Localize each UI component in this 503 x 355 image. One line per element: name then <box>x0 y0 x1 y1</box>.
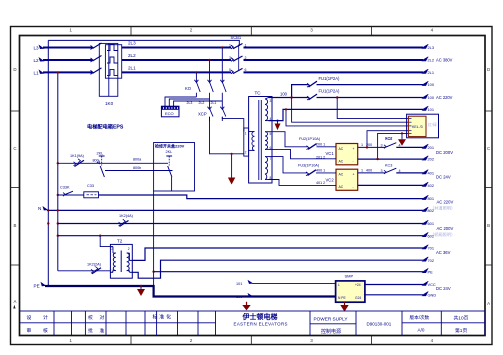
svg-text:401 2: 401 2 <box>316 181 325 185</box>
svg-text:A/0: A/0 <box>418 328 425 333</box>
box inspection switch <box>154 143 195 192</box>
wire 2L2 to terminal <box>244 59 424 61</box>
svg-text:检修开关盒220V: 检修开关盒220V <box>155 143 185 149</box>
breaker SCB1 <box>231 44 243 74</box>
junction C33K row bus <box>57 194 59 196</box>
wire 2L1 to terminal <box>244 71 424 73</box>
relay KEL <box>407 114 439 138</box>
svg-text:2KL: 2KL <box>166 150 173 154</box>
rectifier VC1 <box>336 144 358 165</box>
svg-text:标准化: 标准化 <box>153 314 173 321</box>
svg-text:DC 24V: DC 24V <box>436 175 451 180</box>
svg-text:201 2: 201 2 <box>316 155 325 159</box>
svg-text:D: D <box>487 67 490 72</box>
svg-text:701: 701 <box>428 246 435 251</box>
junction 601 bus1 <box>47 222 49 224</box>
terminal GND <box>422 292 437 298</box>
terminal 601 <box>422 220 435 226</box>
wire 801 line <box>99 195 424 199</box>
svg-text:C33K: C33K <box>60 186 70 190</box>
junction 2L1 tap <box>195 71 197 73</box>
svg-text:AC 380V: AC 380V <box>436 57 453 62</box>
terminal 701 <box>422 245 435 251</box>
svg-text:4: 4 <box>431 28 434 33</box>
wire N 802 line <box>47 209 423 211</box>
svg-text:ECO: ECO <box>165 111 174 116</box>
svg-text:2L3: 2L3 <box>128 41 136 46</box>
inner border frame <box>20 36 486 336</box>
wire switch output down <box>171 177 173 191</box>
wire KEL feeder 1 <box>337 98 408 119</box>
svg-text:L2: L2 <box>34 58 40 63</box>
ground TC primary <box>228 153 235 185</box>
svg-text:2: 2 <box>245 151 247 155</box>
svg-text:2L1: 2L1 <box>211 101 217 105</box>
wire 702 line <box>132 260 423 278</box>
svg-text:1: 1 <box>69 28 72 33</box>
svg-text:L3: L3 <box>34 45 40 50</box>
terminal 202 <box>422 156 435 162</box>
switch 2KL outside <box>97 156 105 177</box>
svg-text:1: 1 <box>229 43 231 47</box>
terminal L2 <box>34 57 45 63</box>
svg-text:第1页: 第1页 <box>455 327 467 334</box>
svg-text:准: 准 <box>100 327 105 334</box>
wire 601 line <box>58 223 423 225</box>
svg-text:版本/次数: 版本/次数 <box>410 314 430 321</box>
svg-text:1K0: 1K0 <box>105 101 114 106</box>
junction T2 feed <box>99 235 101 237</box>
svg-text:N PE: N PE <box>338 296 346 300</box>
terminal 402 <box>422 182 435 188</box>
svg-text:XCP: XCP <box>198 112 207 117</box>
wire TC S2 to VC1 pin1 <box>269 132 309 147</box>
svg-text:EASTERN ELEVATORS: EASTERN ELEVATORS <box>234 321 288 326</box>
svg-text:C: C <box>487 146 490 151</box>
svg-text:AC: AC <box>339 160 344 164</box>
terminal 602 <box>422 233 435 239</box>
svg-text:1K1(9A): 1K1(9A) <box>70 154 85 158</box>
svg-text:1K2(4A): 1K2(4A) <box>119 214 134 218</box>
svg-text:共10页: 共10页 <box>454 314 469 321</box>
title block grid <box>20 311 486 336</box>
wire KC2 to terminal 201 <box>396 146 423 148</box>
svg-text:VC1: VC1 <box>326 151 335 156</box>
svg-text:800: 800 <box>93 159 99 163</box>
terminal 201 <box>422 144 435 150</box>
wire T2 primary feed <box>100 236 110 247</box>
svg-text:VC2: VC2 <box>326 177 335 182</box>
svg-text:5: 5 <box>270 132 272 136</box>
junction N bus2 <box>57 209 59 211</box>
junction 602 row bus <box>57 235 59 237</box>
wire PE bus thick <box>45 286 336 297</box>
svg-text:201: 201 <box>428 145 435 150</box>
terminal 2L3 <box>422 44 435 50</box>
wire VC2 minus to terminal 402 <box>358 184 423 186</box>
junction feeder2 <box>366 146 368 148</box>
svg-text:C33: C33 <box>87 184 94 188</box>
terminal 100 <box>422 81 435 87</box>
zone ticks and numbers top margin <box>131 27 372 36</box>
wire line 100 upper <box>292 85 309 98</box>
svg-text:FU2(1P10A): FU2(1P10A) <box>299 137 321 141</box>
terminal 702 <box>422 257 435 263</box>
terminal 2L1 <box>422 69 435 75</box>
svg-text:2: 2 <box>128 247 130 251</box>
svg-text:101: 101 <box>236 282 242 286</box>
svg-text:4: 4 <box>431 338 434 343</box>
fuse FU1 lower <box>307 94 317 100</box>
svg-text:控制电源: 控制电源 <box>321 328 341 335</box>
wire VC1 plus to KC2 <box>358 146 385 148</box>
svg-text:L: L <box>338 283 340 287</box>
wire XCP-b to TC pin1 <box>222 117 244 132</box>
svg-text:1: 1 <box>69 338 72 343</box>
svg-text:TC: TC <box>255 91 262 96</box>
svg-text:D: D <box>13 67 16 72</box>
svg-text:KC2: KC2 <box>385 137 392 141</box>
svg-text:2: 2 <box>190 338 193 343</box>
svg-text:+24: +24 <box>355 283 361 287</box>
svg-text:AC 200V: AC 200V <box>437 226 454 231</box>
svg-text:核: 核 <box>43 327 48 334</box>
svg-text:3: 3 <box>310 28 313 33</box>
terminal L1 <box>34 69 45 75</box>
svg-text:电梯配电箱EPS: 电梯配电箱EPS <box>87 123 124 131</box>
svg-text:T2: T2 <box>117 239 123 244</box>
terminal 2L2 <box>422 57 435 63</box>
svg-text:800a: 800a <box>133 157 142 161</box>
svg-text:设: 设 <box>27 314 32 321</box>
svg-text:2L3: 2L3 <box>187 101 193 105</box>
terminal block TC primary <box>244 128 249 156</box>
junction feeder3 <box>376 158 378 160</box>
svg-text:101: 101 <box>428 107 435 112</box>
terminal 801 <box>422 195 435 201</box>
svg-text:（轿厢照明）: （轿厢照明） <box>430 231 455 238</box>
terminal L3 <box>34 45 45 51</box>
svg-text:1: 1 <box>128 269 130 273</box>
transformer TC <box>249 97 272 184</box>
junction 601 row bus <box>57 222 59 224</box>
wire KEL feeder 3 <box>286 109 408 126</box>
bus vertical left N <box>47 40 49 286</box>
svg-text:400: 400 <box>366 168 372 172</box>
wire TC S3 to VC2 pin2 <box>269 180 337 186</box>
contact KC3 <box>384 168 396 174</box>
junction 1K1 row bus <box>57 162 59 164</box>
contact KC2 <box>384 143 396 149</box>
wire 701 line <box>132 248 423 260</box>
wire 800a inside box <box>154 162 168 164</box>
svg-text:+: + <box>353 172 355 176</box>
wire TC S3 to VC2 pin1 <box>269 157 308 173</box>
breaker 1K3 <box>91 267 101 274</box>
rectifier VC2 <box>336 169 358 190</box>
svg-text:3: 3 <box>270 99 272 103</box>
svg-text:DC 200V: DC 200V <box>436 150 453 155</box>
svg-text:2L2: 2L2 <box>199 101 205 105</box>
svg-text:200: 200 <box>366 143 372 147</box>
wire 800b inside box <box>154 170 173 172</box>
svg-text:2L1: 2L1 <box>128 66 136 71</box>
svg-text:FU3(1P10A): FU3(1P10A) <box>298 163 320 167</box>
junction L1 bus <box>57 71 59 73</box>
svg-text:对: 对 <box>100 314 105 321</box>
svg-text:批: 批 <box>88 327 93 334</box>
terminal PE <box>422 269 434 275</box>
terminal 802 <box>422 207 435 213</box>
wire L2 phase <box>43 59 93 61</box>
svg-text:+: + <box>353 147 355 151</box>
svg-text:100: 100 <box>428 82 435 87</box>
svg-text:AC 36V: AC 36V <box>436 250 451 255</box>
wire TC S2 to VC1 pin2 <box>269 149 337 158</box>
svg-text:3: 3 <box>310 338 313 343</box>
svg-text:KEL /3: KEL /3 <box>412 125 423 129</box>
terminal PE <box>34 282 47 289</box>
svg-text:A: A <box>14 299 17 304</box>
svg-text:100: 100 <box>236 295 242 299</box>
fuse FU1 upper <box>307 81 317 87</box>
svg-text:审: 审 <box>27 327 32 334</box>
svg-text:G24: G24 <box>355 296 361 300</box>
pin numbers SCB1 <box>229 43 247 72</box>
wire C33K row <box>58 194 84 196</box>
svg-text:FU1(1P2A): FU1(1P2A) <box>319 76 341 81</box>
wire GND line <box>365 294 423 296</box>
svg-text:PE: PE <box>428 269 434 274</box>
wire 1K1 row <box>58 162 154 164</box>
wire line 100 lower from TC <box>269 97 309 99</box>
svg-text:计: 计 <box>43 314 48 321</box>
svg-text:AC: AC <box>339 172 344 176</box>
contact group KO <box>194 48 226 102</box>
svg-text:POWER SUPLY: POWER SUPLY <box>314 316 349 321</box>
wire top jumper to SCB1 <box>48 40 239 46</box>
contact C33K <box>63 191 73 196</box>
svg-text:200 1: 200 1 <box>316 142 325 146</box>
fuse FU3 <box>306 170 316 176</box>
svg-text:伊士顿电梯: 伊士顿电梯 <box>242 312 278 321</box>
pin numbers T2 <box>111 247 130 273</box>
svg-text:4: 4 <box>399 143 401 147</box>
svg-text:AC: AC <box>339 147 344 151</box>
svg-text:2: 2 <box>190 28 193 33</box>
svg-text:AC: AC <box>339 185 344 189</box>
wire KEL feeder 4 <box>367 131 408 148</box>
svg-text:AC 220V: AC 220V <box>437 200 454 205</box>
svg-text:3: 3 <box>381 143 383 147</box>
connector ECO <box>161 106 179 117</box>
svg-text:GND: GND <box>428 292 437 297</box>
wire KEL feeder 2 <box>292 98 409 123</box>
terminal box C33 <box>84 192 99 198</box>
zone ticks and letters left margin <box>11 111 20 265</box>
svg-text:2L2: 2L2 <box>128 53 136 58</box>
ground PE bus <box>137 286 145 296</box>
zone ticks and letters right margin <box>485 111 492 265</box>
wire KC3 to terminal 401 <box>396 172 423 174</box>
wire 2L3 to SCB1 <box>122 47 231 49</box>
wire 2L2 to SCB1 <box>122 59 231 61</box>
wire VC1 minus to terminal 202 <box>358 158 423 160</box>
svg-text:-: - <box>353 185 354 189</box>
svg-text:100: 100 <box>428 95 435 100</box>
svg-text:KO: KO <box>185 86 192 91</box>
svg-text:1: 1 <box>111 269 113 273</box>
plug XCP <box>208 99 226 121</box>
fold mark left margin <box>13 305 15 309</box>
svg-text:3: 3 <box>229 56 231 60</box>
wire KEL feeder 5 <box>378 133 409 159</box>
svg-text:801: 801 <box>428 196 435 201</box>
svg-text:（井道照明）: （井道照明） <box>430 204 455 211</box>
svg-text:FU1(1P2A): FU1(1P2A) <box>319 89 341 94</box>
junction 2L3 tap <box>221 46 223 48</box>
pin numbers TC secondary <box>270 99 272 180</box>
fold arrow bottom center <box>242 302 250 311</box>
fuse FU2 <box>307 144 317 150</box>
wire VC2 plus to KC3 <box>358 172 385 174</box>
svg-text:1K2(2A): 1K2(2A) <box>87 263 102 267</box>
terminal 100 <box>422 94 435 100</box>
wire line 101 <box>269 109 424 120</box>
svg-text:100: 100 <box>280 92 288 97</box>
junction PE line start <box>152 271 154 273</box>
wire PE line <box>154 271 423 273</box>
svg-text:4: 4 <box>399 169 401 173</box>
wire VCC line <box>365 284 423 286</box>
terminal 401 <box>422 170 435 176</box>
svg-text:N: N <box>38 206 41 211</box>
wire KO pole2 to ECO <box>169 99 209 106</box>
svg-text:D90130-001: D90130-001 <box>367 321 392 326</box>
svg-text:B: B <box>14 223 17 228</box>
wire 800b row <box>105 170 154 172</box>
svg-text:2: 2 <box>111 247 113 251</box>
wire labels 2L3 2L2 2L1 under KO <box>187 101 217 105</box>
svg-text:-: - <box>353 160 354 164</box>
junction KEL feeder3 <box>285 108 287 110</box>
wire KO pole1 to ECO <box>165 97 196 106</box>
svg-text:SMP: SMP <box>345 274 354 279</box>
junction KEL feeder1 <box>336 96 338 98</box>
svg-text:401: 401 <box>428 171 435 176</box>
terminal 100 SMP feed <box>236 293 254 299</box>
vertical from inspection box to PE bus <box>153 191 155 286</box>
junction PE ground <box>140 285 143 288</box>
svg-text:A: A <box>487 301 490 306</box>
svg-text:3: 3 <box>381 169 383 173</box>
power supply SMP <box>336 281 365 302</box>
svg-text:601: 601 <box>428 221 435 226</box>
breaker 1K1 <box>74 159 85 167</box>
svg-text:2L2: 2L2 <box>428 58 435 63</box>
label 200 node right <box>361 143 383 147</box>
breaker 1K2 <box>119 219 129 226</box>
svg-text:校: 校 <box>88 314 93 321</box>
svg-text:SCB1: SCB1 <box>231 35 242 40</box>
wire 1K3 row <box>58 270 111 272</box>
ground arrow XC0 <box>398 133 406 145</box>
svg-text:1: 1 <box>361 168 363 172</box>
svg-text:PE: PE <box>34 284 40 289</box>
svg-text:5: 5 <box>229 68 231 72</box>
svg-text:红/绿: 红/绿 <box>428 122 437 127</box>
svg-text:7: 7 <box>270 157 272 161</box>
svg-text:KC3: KC3 <box>385 163 392 167</box>
wire 602 line <box>58 235 423 237</box>
junction KEL ground stem <box>401 132 403 134</box>
svg-text:702: 702 <box>428 258 435 263</box>
wire KO pole3 to ECO <box>174 101 223 106</box>
svg-text:AC 220V: AC 220V <box>436 95 453 100</box>
wire XCP-a to TC pin2 <box>210 117 244 154</box>
svg-text:B: B <box>487 223 490 228</box>
zone ticks and numbers bottom margin <box>131 336 372 345</box>
wire 101 to SMP <box>253 282 336 284</box>
wire L3 phase <box>43 47 93 49</box>
svg-text:1: 1 <box>245 132 247 136</box>
svg-text:C: C <box>13 146 16 151</box>
wire L1 phase <box>43 71 93 73</box>
transformer T2 <box>110 244 132 278</box>
svg-text:202: 202 <box>428 157 435 162</box>
switch 2KL inside <box>166 156 172 177</box>
svg-text:800b: 800b <box>133 166 141 170</box>
terminal N <box>38 206 48 211</box>
svg-text:VCC: VCC <box>428 282 436 287</box>
svg-text:1: 1 <box>361 143 363 147</box>
breaker 1K0 <box>91 43 122 96</box>
label 400 node right <box>361 168 383 172</box>
ground TC secondary <box>275 120 281 131</box>
terminal 101 SMP feed <box>236 280 254 286</box>
svg-text:DC 24V: DC 24V <box>436 286 451 291</box>
wire 2L3 to terminal <box>244 47 424 49</box>
svg-text:2KL: 2KL <box>97 152 104 156</box>
bus vertical left main <box>57 72 59 270</box>
junction 100 <box>290 96 292 98</box>
junction N bus1 <box>47 209 49 211</box>
wire 2L1 to SCB1 <box>122 71 231 73</box>
svg-text:2L3: 2L3 <box>428 45 435 50</box>
svg-text:400 1: 400 1 <box>316 169 325 173</box>
svg-text:2L1: 2L1 <box>428 70 435 75</box>
junction 2L2 tap <box>208 59 210 61</box>
ground arrow below SMP <box>340 302 348 311</box>
svg-text:402: 402 <box>428 183 435 188</box>
svg-text:L1: L1 <box>34 70 40 75</box>
terminal 101 <box>422 106 435 112</box>
terminal VCC <box>422 281 436 287</box>
